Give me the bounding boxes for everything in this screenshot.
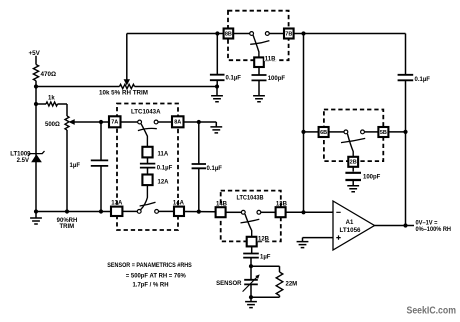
pin 2B xyxy=(348,157,358,167)
contact 5B side xyxy=(361,130,365,134)
contact 6B side xyxy=(344,130,348,134)
pin 8A xyxy=(172,116,184,127)
wire 7B to feedback line xyxy=(294,33,406,35)
contact 13A side xyxy=(137,210,141,214)
wire sensor stub bottom xyxy=(250,285,252,298)
svg-text:12A: 12A xyxy=(158,179,170,185)
capacitor 100pF mid xyxy=(345,173,361,180)
switch arm B mid xyxy=(347,134,353,157)
svg-text:0.1µF: 0.1µF xyxy=(157,165,173,171)
contact 8B side xyxy=(250,32,254,36)
wire node A vertical xyxy=(35,81,37,212)
svg-text:1.7pF / % RH: 1.7pF / % RH xyxy=(133,282,169,289)
switch arc B top xyxy=(250,41,269,45)
wire 5B to feedback xyxy=(388,131,405,133)
wire 500&#937; bottom xyxy=(66,130,68,212)
svg-text:2.5V: 2.5V xyxy=(17,158,29,164)
contact 13B side xyxy=(257,210,261,214)
ground 8A xyxy=(215,122,217,127)
wire 0.1uF stub upper xyxy=(216,34,218,75)
svg-text:0.1µF: 0.1µF xyxy=(415,77,431,83)
wire 11A to cap xyxy=(147,157,149,163)
LTC1043B mid dashed outline xyxy=(324,110,383,162)
wire feedback upper xyxy=(405,34,407,75)
svg-text:7A: 7A xyxy=(111,120,118,126)
svg-text:470Ω: 470Ω xyxy=(41,71,57,78)
junction 0.1uF top right xyxy=(197,120,201,124)
wire 13B to op amp xyxy=(286,211,333,213)
resistor 470&#937; xyxy=(33,65,38,81)
node B junction xyxy=(34,102,38,106)
ground op amp plus xyxy=(302,238,304,242)
svg-text:8A: 8A xyxy=(174,120,181,126)
wire 0.1uF right lower xyxy=(198,169,200,212)
wire 100pF to ground xyxy=(258,81,260,96)
svg-text:LTC1043B: LTC1043B xyxy=(237,194,264,201)
svg-text:SENSOR = PANAMETRICS #RHS: SENSOR = PANAMETRICS #RHS xyxy=(107,262,192,269)
svg-text:100pF: 100pF xyxy=(268,76,286,82)
wire rail right segment xyxy=(135,86,218,88)
pin 8B xyxy=(224,29,234,39)
switch arc B mid xyxy=(341,138,365,142)
resistor 22M xyxy=(276,272,283,296)
LTC1043B top dashed outline xyxy=(228,11,289,61)
switch arm A top xyxy=(141,124,147,147)
svg-text:10k 5% RH TRIM: 10k 5% RH TRIM xyxy=(99,91,148,97)
svg-text:1k: 1k xyxy=(48,96,55,102)
junction op amp input xyxy=(301,210,305,214)
zener LT1009 2.5V xyxy=(28,151,45,156)
pin 14A xyxy=(174,207,184,216)
contact 14B side xyxy=(241,210,245,214)
wire contact to 8A xyxy=(158,121,172,123)
junction 1uF bottom xyxy=(99,209,103,213)
junction mid at 6B xyxy=(301,130,305,134)
wire feedback lower xyxy=(405,81,407,226)
wire 14A to 14B xyxy=(184,211,216,213)
capacitor 0.1uF feedback xyxy=(398,75,414,81)
svg-text:LTC1043A: LTC1043A xyxy=(131,109,161,116)
svg-text:A1: A1 xyxy=(346,220,354,226)
wire contact to 5B xyxy=(365,131,379,133)
svg-text:SeekIC.com: SeekIC.com xyxy=(407,304,457,316)
svg-text:0.1µF: 0.1µF xyxy=(207,166,223,172)
wire op amp plus input xyxy=(303,237,334,239)
contact 7A side xyxy=(138,120,142,124)
wire sensor stub top xyxy=(250,266,252,279)
wire 8B to contact xyxy=(233,33,249,35)
wire 1uF branch lower xyxy=(100,166,102,212)
capacitor 0.1uF left-top xyxy=(210,75,225,81)
resistor 1k xyxy=(36,103,46,105)
wire bottom rail xyxy=(36,211,111,213)
switch arc B bottom xyxy=(241,219,260,223)
capacitor 1uF left xyxy=(91,160,108,166)
wire branch bottom xyxy=(279,296,281,298)
svg-text:7B: 7B xyxy=(285,31,292,37)
contact 7B side xyxy=(265,32,269,36)
wire rail-end ground stem xyxy=(216,87,218,96)
svg-text:1µF: 1µF xyxy=(70,163,81,169)
wire op amp output xyxy=(375,225,415,227)
ground 100pF top xyxy=(253,96,265,102)
svg-text:6B: 6B xyxy=(320,130,327,136)
svg-text:500Ω: 500Ω xyxy=(45,122,60,128)
junction rail end xyxy=(215,84,219,88)
wire branch top xyxy=(251,265,280,267)
potentiometer 10k 5% RH TRIM xyxy=(120,84,135,88)
wire 100pF mid to ground xyxy=(352,181,354,186)
junction sensor bottom xyxy=(249,295,253,299)
junction 7B node xyxy=(301,31,305,35)
svg-text:11B: 11B xyxy=(265,56,276,62)
svg-text:12B: 12B xyxy=(258,237,270,243)
junction wiper node xyxy=(99,120,103,124)
capacitor 0.1uF right xyxy=(192,164,206,168)
wire mid vertical xyxy=(303,34,305,213)
junction 0.1uF bottom right xyxy=(197,210,201,214)
pin 12A xyxy=(142,175,152,186)
wire 8A to ground xyxy=(184,121,217,123)
svg-text:2B: 2B xyxy=(350,160,357,166)
LTC1043A dashed outline xyxy=(117,104,178,231)
svg-text:+5V: +5V xyxy=(29,50,41,57)
potentiometer 500&#937; xyxy=(65,116,69,130)
pin 13B xyxy=(276,207,286,217)
switch arc A bottom xyxy=(140,202,156,206)
svg-text:100pF: 100pF xyxy=(363,174,381,180)
wire 7A to contact xyxy=(121,121,138,123)
svg-text:= 500pF AT RH = 76%: = 500pF AT RH = 76% xyxy=(126,273,187,280)
junction rail bottom left xyxy=(34,209,38,213)
switch arc A top xyxy=(138,128,157,130)
wire 2B to cap xyxy=(352,167,354,172)
wire top rail to 8B xyxy=(127,33,224,35)
wire contact to 7B xyxy=(269,33,284,35)
svg-text:0.1µF: 0.1µF xyxy=(226,76,242,82)
wire 1uF branch upper xyxy=(100,122,102,160)
pin 6B xyxy=(319,127,329,137)
svg-text:0V–1V =: 0V–1V = xyxy=(416,221,438,227)
wire 0.1uF right upper xyxy=(198,122,200,164)
junction output feedback xyxy=(403,223,407,227)
junction feedback at 5B xyxy=(403,130,407,134)
ground sensor xyxy=(250,297,252,301)
ground left xyxy=(35,212,37,219)
sensor variable capacitor xyxy=(244,280,258,285)
wire 12B to 1uF xyxy=(251,246,253,253)
svg-text:LT1009: LT1009 xyxy=(10,152,31,158)
LTC1043B bottom dashed outline xyxy=(221,191,281,242)
pin 11A xyxy=(142,147,152,158)
node A junction xyxy=(34,84,38,88)
pin 7A xyxy=(109,116,121,127)
wire 13A to contact xyxy=(122,210,137,212)
junction sensor top xyxy=(249,264,253,268)
pin 7B xyxy=(284,29,294,39)
wire contact to 13B xyxy=(261,211,276,213)
svg-text:TRIM: TRIM xyxy=(59,224,74,230)
ground 100pF mid xyxy=(347,186,359,192)
10k wiper arrow xyxy=(126,34,128,81)
svg-text:90%RH: 90%RH xyxy=(57,218,78,224)
wire 6B to contact xyxy=(329,131,344,133)
svg-text:5B: 5B xyxy=(380,130,387,136)
svg-text:SENSOR: SENSOR xyxy=(216,281,242,287)
svg-text:11A: 11A xyxy=(158,151,169,157)
junction pot bottom xyxy=(65,209,69,213)
svg-text:22M: 22M xyxy=(286,282,298,288)
ground rail end xyxy=(211,96,223,102)
capacitor 100pF top xyxy=(252,75,267,80)
op-amp A1 LT1056 xyxy=(333,201,375,250)
svg-text:8B: 8B xyxy=(225,31,232,37)
pin 11B xyxy=(254,57,264,67)
capacitor 1uF bottom xyxy=(243,254,259,258)
capacitor 0.1uF flying A xyxy=(140,164,155,168)
svg-text:LT1056: LT1056 xyxy=(340,228,362,234)
pin 12B xyxy=(247,237,257,247)
wire 11B to cap xyxy=(258,67,260,75)
wire 0.1uF stub lower xyxy=(216,80,218,86)
svg-text:1µF: 1µF xyxy=(260,254,271,260)
contact 14A side xyxy=(155,210,159,214)
switch arm B bottom xyxy=(245,214,252,237)
switch arm A bottom xyxy=(141,185,148,210)
wire rail left segment xyxy=(36,86,120,88)
500&#937; wiper arrow xyxy=(70,120,75,124)
contact 8A side xyxy=(154,120,158,124)
wire 14B to contact xyxy=(226,211,242,213)
pin 5B xyxy=(378,127,388,137)
junction top 0.1uF tap xyxy=(215,31,219,35)
switch arm B top xyxy=(253,35,259,57)
wire cap to 12A xyxy=(147,168,149,175)
wire 1uF to sensor node xyxy=(250,258,252,266)
pin 13A xyxy=(111,207,122,216)
pin 14B xyxy=(216,207,226,217)
wire contact to 14A xyxy=(159,210,174,212)
svg-text:0%–100% RH: 0%–100% RH xyxy=(416,227,452,233)
wire mid line to 6B xyxy=(304,131,319,133)
